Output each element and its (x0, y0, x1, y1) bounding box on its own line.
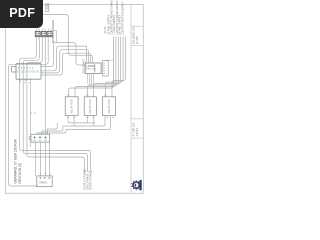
wire mid bus to transformer feed 1 (48, 123, 58, 134)
regulator Q2 (41, 32, 46, 37)
svg-text:LT 240: LT 240 (135, 36, 139, 44)
supply labels (rotated) (103, 0, 124, 34)
relay K3 (102, 97, 115, 116)
logo gear (131, 180, 141, 190)
title block strip (131, 5, 143, 194)
wire K1 pin2 to mid bus B (74, 115, 77, 126)
bus wire N4 to relay K2 pin2 (94, 37, 121, 97)
svg-text:LM340: LM340 (86, 64, 94, 68)
TB1 top pin labels (40, 173, 52, 175)
wire W2 U2 right to U1 top (41, 50, 89, 73)
wire Q1 leg to U2 (19, 37, 36, 82)
terminal block TB1 (37, 176, 52, 187)
svg-text:GERRARD, ST GER 250 KVA: GERRARD, ST GER 250 KVA (13, 138, 17, 183)
svg-text:TERM 1: TERM 1 (39, 183, 48, 185)
wire mid bus C to transformer feed 3 (38, 130, 66, 135)
connector J1 (tiny box at top) (46, 4, 49, 12)
stub wires into corner bundle (54, 29, 57, 43)
wire U2 pin A to output stub 1 (19, 82, 90, 171)
bus wire N2 to relay K1 pin2 (75, 37, 116, 97)
pin ticks above regulators (36, 29, 51, 32)
svg-text:REVISION [0]: REVISION [0] (18, 163, 22, 183)
svg-text:RELAY PCB: RELAY PCB (108, 99, 111, 113)
svg-text:OUTPUT B RTCM SUPPLY: OUTPUT B RTCM SUPPLY (121, 1, 125, 33)
svg-text:D1 D2 D3 D4 D5 D6: D1 D2 D3 D4 D5 D6 (17, 71, 39, 74)
svg-text:REG BOARD: REG BOARD (83, 59, 86, 74)
relay K2 (84, 97, 96, 116)
wire W4 badge to U1 (43, 15, 92, 64)
wire K2 pin to mid bus A (87, 115, 89, 123)
T1 top pin labels (37, 132, 48, 134)
svg-text:OUTPUT PHASE: OUTPUT PHASE (89, 171, 92, 190)
bus wire N5 to relay K3 pin1 (106, 37, 124, 97)
sheet frame (5, 5, 143, 194)
wire mid bus C to K3 pin2 (66, 115, 111, 129)
svg-text:RELAY PCB: RELAY PCB (89, 99, 92, 113)
rectifier block U2 (12, 64, 42, 80)
wire mid bus B to K3 pin (63, 115, 105, 126)
wire T1 to terminal block drops (36, 142, 50, 176)
wire Q2 leg to U2 (23, 37, 39, 82)
bus wire N1 to relay K1 pin1 (69, 37, 114, 97)
relay K1 (65, 97, 78, 116)
wire K1 pin to mid bus A (68, 115, 95, 123)
title block text cell 1 (132, 27, 139, 45)
connector J2 (102, 61, 108, 76)
svg-text:MAINS CHARGER: MAINS CHARGER (51, 20, 55, 43)
stub U1 to J2 (101, 60, 113, 70)
wire U2 pin C to output stub 3 (27, 82, 85, 171)
junction marks (30, 112, 36, 114)
regulator Q3 (47, 32, 52, 37)
wire U2 pin B to output stub 2 (23, 82, 87, 171)
wire W0 U2 right to U1 left (41, 43, 85, 67)
U2 bottom pin ticks (19, 79, 31, 82)
title block text cell 2 (132, 122, 139, 136)
wire W3 U2 right to U1 top (41, 53, 91, 75)
regulator board U1 (85, 63, 101, 74)
wire U2 pin D down (30, 82, 32, 147)
output stub pin ticks (83, 170, 91, 172)
bus wire N6 to relay K3 pin2 (112, 37, 126, 97)
U1 bottom pins to fan bus (88, 74, 94, 88)
wire Q3 leg to U2 (27, 37, 42, 82)
relay pin ticks (67, 95, 115, 117)
bus wire N3 to relay K2 pin1 (88, 37, 119, 97)
svg-text:A 2014: A 2014 (135, 128, 139, 137)
regulator Q1 (35, 32, 40, 37)
wire Q3 left leg to transformer (44, 37, 46, 135)
wire W1 U2 right to U1 top (41, 46, 87, 71)
transformer T1 (29, 134, 49, 142)
PDF badge (0, 0, 43, 28)
svg-text:RELAY PCB: RELAY PCB (70, 99, 73, 113)
leader jogs under labels (109, 33, 125, 35)
output labels (83, 169, 92, 190)
wire Q3 right leg to left rail (9, 37, 49, 186)
wire K2 pin2 to mid bus B (93, 115, 95, 126)
wire mid bus to transformer feed 2 (42, 126, 63, 134)
